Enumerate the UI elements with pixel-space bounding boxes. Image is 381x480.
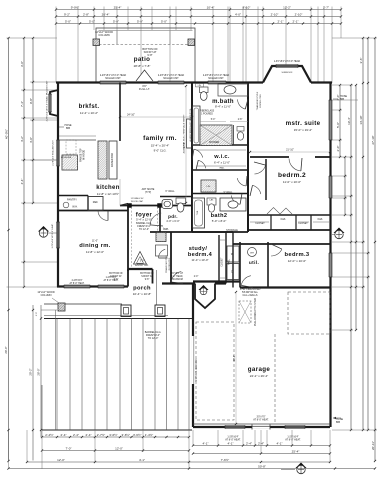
patio soffit dashed line	[99, 44, 192, 46]
mstr bay window	[263, 66, 311, 83]
util-bedrm3 wall	[267, 242, 269, 288]
svg-text:4'-0" x 6'-0": 4'-0" x 6'-0"	[166, 219, 180, 223]
north wall windows brkfst	[100, 80, 126, 82]
svg-text:COLUMN: COLUMN	[98, 33, 109, 37]
svg-text:MULLED UNIT: MULLED UNIT	[163, 78, 179, 80]
svg-text:9'-0" CLG.: 9'-0" CLG.	[154, 149, 167, 153]
brkfst west bay	[50, 90, 58, 116]
svg-text:w.i.c.: w.i.c.	[213, 154, 230, 160]
svg-text:9'-2": 9'-2"	[64, 12, 70, 16]
mstr door arc	[289, 159, 301, 172]
svg-text:mstr. suite: mstr. suite	[286, 120, 321, 127]
svg-text:FULL LT.: FULL LT.	[139, 87, 150, 91]
kitchen island	[98, 141, 107, 179]
svg-text:BIB: BIB	[336, 421, 340, 424]
svg-text:7'-4": 7'-4"	[20, 101, 24, 107]
dining south wall	[57, 285, 128, 287]
garage right dashed storage	[288, 292, 330, 334]
dining south windows	[64, 284, 90, 286]
svg-text:COLUMN: COLUMN	[41, 294, 52, 297]
bottom dim row 4	[9, 468, 376, 470]
garage south window left	[225, 424, 245, 426]
svg-text:14'-10": 14'-10"	[359, 115, 363, 124]
garage south door	[252, 426, 270, 429]
patio dim verticals	[116, 31, 118, 44]
svg-text:brkfst.: brkfst.	[79, 104, 100, 110]
garage dim vert	[235, 292, 237, 424]
keynote right	[334, 228, 345, 234]
svg-text:SUNROOF: SUNROOF	[282, 72, 294, 74]
svg-text:family rm.: family rm.	[143, 135, 177, 142]
svg-text:1-2'8"x5'4": 1-2'8"x5'4"	[106, 277, 117, 279]
wic door arc	[198, 160, 206, 168]
svg-text:TRANSOM STYLE: TRANSOM STYLE	[256, 91, 259, 110]
svg-text:40'-0½": 40'-0½"	[4, 129, 8, 139]
svg-text:4'-1": 4'-1"	[277, 441, 283, 445]
svg-text:9'-8": 9'-8"	[29, 98, 33, 104]
svg-text:9'-8": 9'-8"	[147, 53, 152, 57]
east wall window bedrm3	[328, 253, 330, 277]
dining west window	[55, 222, 57, 248]
closet rods	[250, 221, 269, 223]
right dimension col 2c	[367, 38, 369, 430]
pdr sink	[162, 200, 173, 209]
svg-text:porch: porch	[133, 286, 151, 292]
entry wall	[128, 268, 153, 270]
svg-text:29'-2": 29'-2"	[29, 368, 33, 375]
mbath shower	[200, 125, 232, 146]
kitchen-dining wall	[57, 210, 128, 212]
svg-text:CLG.+WALLS: CLG.+WALLS	[243, 294, 258, 297]
svg-text:11'-0" x 10'-0": 11'-0" x 10'-0"	[283, 180, 301, 184]
svg-text:AT 8'-0" HEAT.: AT 8'-0" HEAT.	[70, 282, 85, 285]
svg-text:PULL DOWN ATTIC STAIR: PULL DOWN ATTIC STAIR	[254, 298, 257, 326]
svg-text:CLOSET: CLOSET	[222, 257, 224, 267]
svg-text:20'-4": 20'-4"	[183, 142, 186, 148]
svg-text:9" WALL: 9" WALL	[224, 191, 234, 194]
porch slab edge	[44, 303, 122, 305]
mbath toilet	[200, 87, 209, 93]
util wh circle	[248, 248, 257, 257]
bottom extension lines	[41, 430, 43, 469]
svg-text:9'-0" O.H. GAR. DR.: 9'-0" O.H. GAR. DR.	[195, 358, 198, 381]
svg-text:RANGE TOP: RANGE TOP	[80, 148, 83, 162]
bath2 vanity	[220, 198, 246, 211]
bedrm2 west wall	[265, 159, 267, 200]
bath2 south wall	[192, 231, 248, 233]
patio door triangle	[136, 70, 153, 81]
kitchen floor line	[119, 179, 121, 206]
svg-text:2'-0": 2'-0"	[336, 146, 340, 152]
svg-text:2'-1": 2'-1"	[293, 19, 299, 23]
svg-text:K&S: K&S	[318, 218, 323, 221]
north wall windows family	[158, 80, 184, 82]
patio post right	[188, 39, 195, 46]
garage north wall east	[240, 286, 331, 288]
north wall brkfst-family	[56, 81, 192, 83]
svg-text:2'-7½": 2'-7½"	[97, 433, 105, 437]
bottom dim row 2b	[193, 453, 330, 455]
svg-text:27'-10": 27'-10"	[371, 135, 375, 144]
util dryer	[227, 264, 239, 280]
svg-text:10'-4" x 10'-8": 10'-4" x 10'-8"	[133, 292, 151, 296]
garage west wall	[192, 284, 194, 428]
svg-text:2-2'8"x5'4" AT 8'-0" HEAD: 2-2'8"x5'4" AT 8'-0" HEAD	[158, 74, 185, 77]
svg-text:2'-4½": 2'-4½"	[45, 433, 53, 437]
svg-text:2-2'8"x5'4" AT 8'-0" HEAD: 2-2'8"x5'4" AT 8'-0" HEAD	[100, 74, 127, 77]
closet row south wall	[248, 229, 331, 231]
top dimension row 1	[56, 9, 341, 11]
right extension lines	[332, 37, 377, 39]
svg-text:2'-10": 2'-10"	[295, 12, 303, 16]
bath2 tub	[193, 198, 205, 228]
svg-text:9'-8": 9'-8"	[145, 279, 150, 281]
mbath south wall	[192, 144, 248, 146]
svg-text:3'-6½": 3'-6½"	[122, 433, 130, 437]
top extension lines	[55, 7, 57, 83]
porch column right	[155, 305, 165, 317]
svg-text:26'-4": 26'-4"	[233, 355, 236, 361]
svg-text:11'-4" x 10'-2": 11'-4" x 10'-2"	[80, 111, 98, 115]
mbath wc	[233, 125, 235, 145]
svg-text:REF.: REF.	[93, 201, 99, 204]
bottom dim row 2	[42, 450, 189, 452]
closet rod study	[220, 239, 225, 241]
pdr north wall	[160, 196, 192, 198]
study west wall	[170, 232, 172, 284]
north wall mbath windows	[208, 80, 226, 82]
svg-text:AT 8'-0" HEAT.: AT 8'-0" HEAT.	[253, 419, 269, 422]
mbath tub	[193, 106, 201, 145]
east wall window mstr	[328, 100, 330, 140]
svg-text:5'-0" x 8'-0": 5'-0" x 8'-0"	[212, 219, 227, 223]
bedrm2 window arc	[253, 185, 261, 194]
patio post left	[93, 39, 100, 46]
svg-text:bedrm.2: bedrm.2	[278, 172, 306, 179]
bar hatch	[156, 233, 166, 242]
svg-text:1-3'0"x5'4" AT 8'-0" HEAD: 1-3'0"x5'4" AT 8'-0" HEAD	[274, 60, 301, 63]
mbath vanity	[218, 84, 248, 96]
svg-text:12'-0" x 10'-0": 12'-0" x 10'-0"	[288, 259, 306, 263]
svg-text:PANTRY: PANTRY	[67, 199, 77, 202]
svg-text:dining rm.: dining rm.	[79, 243, 111, 249]
svg-text:4'-0": 4'-0"	[235, 12, 241, 16]
svg-text:CLOSET: CLOSET	[298, 222, 308, 225]
pdr toilet	[176, 198, 186, 204]
svg-text:2'-4": 2'-4"	[246, 441, 252, 445]
svg-text:AT 8'-0" HEAT.: AT 8'-0" HEAT.	[285, 439, 301, 442]
driveway slab outline	[41, 385, 43, 430]
patio deck outline	[96, 28, 195, 82]
util door arc	[241, 276, 251, 286]
svg-text:WOOD CAP: WOOD CAP	[131, 200, 144, 203]
svg-text:pdr.: pdr.	[168, 214, 178, 219]
mstr south wall	[250, 156, 289, 158]
svg-text:2'-8": 2'-8"	[238, 119, 243, 121]
hall door arc	[237, 178, 246, 186]
wic rail2	[196, 149, 246, 151]
closet dividers	[270, 215, 272, 230]
foyer east wall	[159, 206, 161, 233]
study bay pentagon	[195, 284, 215, 309]
bedrm2 door arc	[254, 165, 265, 174]
foyer opening column right	[158, 204, 162, 208]
kitchen counter top	[59, 139, 96, 141]
svg-text:2'-4": 2'-4"	[86, 433, 92, 437]
svg-text:3'-0": 3'-0"	[20, 61, 24, 67]
svg-text:2'-1": 2'-1"	[278, 19, 284, 23]
mstr dim line	[250, 151, 330, 153]
svg-text:TO 12'-0": TO 12'-0"	[148, 337, 159, 340]
kitchen-family wall	[119, 83, 121, 142]
family east wall	[191, 83, 193, 233]
svg-text:3'-6½": 3'-6½"	[133, 433, 141, 437]
svg-text:HALL: HALL	[228, 258, 231, 264]
svg-text:1'-0": 1'-0"	[36, 312, 38, 317]
bottom dim row 1b	[193, 445, 330, 447]
svg-text:3'-0": 3'-0"	[140, 261, 145, 263]
svg-text:26'-4": 26'-4"	[102, 12, 110, 16]
svg-text:4'-1": 4'-1"	[139, 458, 145, 462]
foyer opening column left	[128, 204, 132, 208]
left dimension col mid	[23, 38, 25, 287]
bedrm2 south closet wall	[248, 214, 331, 216]
hall-bath2 wall	[192, 193, 248, 195]
svg-text:6" WALL: 6" WALL	[165, 190, 175, 193]
svg-text:bedrm.3: bedrm.3	[284, 252, 309, 258]
bottom dim row 1	[42, 436, 189, 438]
right dimension col 1	[350, 85, 352, 430]
svg-text:4'-0": 4'-0"	[29, 137, 33, 143]
svg-text:3'-6": 3'-6"	[359, 58, 363, 64]
study closet strip	[218, 235, 220, 284]
svg-text:TUB: TUB	[197, 210, 199, 215]
bath2 door arc	[231, 195, 240, 204]
svg-text:4'-1": 4'-1"	[203, 441, 209, 445]
attic stair dashed	[239, 301, 251, 323]
svg-text:MULLED UNIT: MULLED UNIT	[105, 78, 121, 80]
svg-text:50'-8": 50'-8"	[258, 464, 266, 468]
svg-text:11'-0": 11'-0"	[92, 240, 98, 243]
entry door triangles	[134, 252, 147, 265]
svg-text:1'-4½": 1'-4½"	[145, 433, 153, 437]
svg-text:util.: util.	[249, 260, 259, 266]
kitchen-dining door arc	[98, 211, 108, 221]
svg-text:RAISED BAR: RAISED BAR	[111, 153, 114, 167]
svg-text:29'-0": 29'-0"	[4, 346, 8, 353]
svg-text:28'-0": 28'-0"	[37, 368, 41, 375]
right dimension col 2	[362, 38, 364, 430]
svg-text:ENTRY DR.: ENTRY DR.	[135, 264, 149, 267]
mbath door arc2	[238, 99, 246, 109]
top dimension row 3	[56, 23, 341, 25]
right dimension col 1c	[344, 157, 346, 215]
svg-text:TRANSOM: TRANSOM	[171, 278, 183, 281]
svg-text:11'-4" x 10'-0": 11'-4" x 10'-0"	[192, 258, 209, 262]
left dimension col inner	[32, 38, 34, 203]
svg-text:HOSE BIB: HOSE BIB	[61, 157, 72, 159]
pantry	[58, 195, 88, 197]
svg-text:BOTTOM OF: BOTTOM OF	[109, 273, 123, 275]
fridge	[88, 197, 103, 211]
svg-text:patio: patio	[134, 56, 151, 63]
svg-text:LAV.: LAV.	[209, 199, 213, 202]
bath2 toilet	[207, 198, 216, 205]
svg-text:MULLED UNIT: MULLED UNIT	[208, 78, 224, 80]
svg-text:5'-0": 5'-0"	[137, 19, 143, 23]
wic south wall	[192, 169, 248, 171]
svg-text:SHOWER: SHOWER	[209, 142, 220, 144]
svg-text:2'-4": 2'-4"	[61, 433, 67, 437]
svg-text:BIB: BIB	[340, 98, 344, 101]
svg-text:20'-11": 20'-11"	[371, 441, 375, 450]
svg-text:21'-10": 21'-10"	[286, 149, 294, 152]
driveway joint lines	[56, 319, 58, 431]
svg-text:RAIL: RAIL	[220, 167, 226, 170]
svg-text:28'-8" x 7'-8": 28'-8" x 7'-8"	[134, 64, 151, 68]
left dimension col outer	[8, 38, 10, 461]
svg-text:1 POURED: 1 POURED	[201, 114, 213, 116]
svg-text:2-2'8"x5'4" MULLED UNIT: 2-2'8"x5'4" MULLED UNIT	[53, 140, 55, 166]
svg-text:12'-0": 12'-0"	[57, 458, 65, 462]
svg-text:2'-0": 2'-0"	[194, 276, 199, 278]
range counter	[62, 155, 78, 170]
svg-text:6'-4" x 11'-0": 6'-4" x 11'-0"	[214, 161, 230, 165]
bedrm2 closet bifold	[267, 208, 292, 215]
svg-text:7'-0": 7'-0"	[66, 446, 72, 450]
north wall mbath	[192, 81, 263, 83]
right dimension col 1b	[339, 85, 341, 157]
left extension lines	[7, 37, 58, 39]
svg-text:2'-10": 2'-10"	[271, 12, 279, 16]
svg-text:AT 8'-0" HEAT.: AT 8'-0" HEAT.	[104, 279, 119, 282]
svg-text:5'-0": 5'-0"	[161, 19, 167, 23]
util west wall	[239, 242, 241, 288]
svg-text:TO 12'-0": TO 12'-0"	[139, 228, 149, 231]
svg-text:12'-0": 12'-0"	[115, 446, 123, 450]
svg-text:5'-0": 5'-0"	[336, 122, 340, 128]
family dim line	[120, 116, 192, 118]
right dimension col 2b	[355, 85, 357, 330]
svg-text:kitchen: kitchen	[96, 185, 119, 191]
svg-text:BOTTOM OF: BOTTOM OF	[140, 273, 154, 275]
svg-text:ALLEN FIBERGLASS WHIRLPOOL: ALLEN FIBERGLASS WHIRLPOOL	[189, 108, 192, 142]
svg-text:2'-4": 2'-4"	[73, 433, 79, 437]
garage center dashed line	[274, 334, 276, 424]
svg-text:4'-4": 4'-4"	[20, 179, 24, 185]
svg-text:12'-2": 12'-2"	[283, 5, 291, 9]
svg-text:5'-0": 5'-0"	[65, 19, 71, 23]
svg-text:15'-4" x 20'-4": 15'-4" x 20'-4"	[151, 144, 169, 148]
bedrm3 door arc	[271, 249, 282, 256]
svg-text:2-2'8"x5'4" AT 8'-0" HEAD, MUL: 2-2'8"x5'4" AT 8'-0" HEAD, MULLED UNIT	[46, 80, 49, 121]
svg-text:STORAGE: STORAGE	[226, 229, 238, 232]
porch column left	[121, 305, 131, 317]
north wall mstr east	[311, 81, 332, 83]
svg-text:CLOSET: CLOSET	[255, 222, 265, 225]
garage north wall west	[193, 280, 240, 282]
svg-text:TRANSOM STYLE: TRANSOM STYLE	[165, 255, 168, 273]
svg-text:15'-0" x 19'-2": 15'-0" x 19'-2"	[294, 128, 312, 132]
svg-text:3'-6½": 3'-6½"	[109, 433, 117, 437]
svg-text:25'-4": 25'-4"	[292, 449, 300, 453]
mbath door arc	[194, 149, 203, 157]
svg-text:FIBERGLASS: FIBERGLASS	[200, 110, 215, 113]
svg-text:4'-1": 4'-1"	[228, 441, 234, 445]
svg-text:K&S: K&S	[281, 218, 286, 221]
svg-text:8'-4" x 11'-0": 8'-4" x 11'-0"	[215, 105, 231, 109]
west wall upper	[57, 83, 59, 288]
svg-text:(TYP): (TYP)	[145, 191, 151, 194]
svg-text:D: D	[231, 271, 233, 274]
family dim vert	[185, 86, 187, 203]
family south wall	[120, 205, 192, 207]
svg-text:7'-6½": 7'-6½"	[221, 458, 229, 462]
svg-text:BIB: BIB	[66, 127, 70, 130]
garage west door gap	[192, 336, 195, 384]
svg-text:8'-10": 8'-10"	[243, 5, 251, 9]
foyer west wall	[127, 206, 129, 272]
bottom left dim verticals	[32, 305, 34, 461]
study door arc	[171, 272, 181, 282]
wing divider wall	[247, 83, 249, 233]
foyer dashed ceiling lines	[131, 207, 133, 268]
svg-text:W/ HOOD: W/ HOOD	[84, 149, 86, 160]
bottom dim row 3	[27, 461, 330, 463]
mbath lin box	[196, 84, 204, 87]
fireplace	[187, 119, 193, 148]
svg-text:19'-4": 19'-4"	[347, 117, 351, 125]
svg-text:3'0"x5'4" AT: 3'0"x5'4" AT	[171, 272, 184, 275]
east wall	[329, 83, 331, 428]
svg-text:5'-0": 5'-0"	[211, 119, 216, 121]
svg-text:5'-4" x 12'-0": 5'-4" x 12'-0"	[136, 218, 152, 222]
svg-text:24'-10": 24'-10"	[127, 113, 135, 117]
svg-text:2'-8": 2'-8"	[83, 12, 89, 16]
svg-text:LIN.: LIN.	[206, 186, 210, 188]
garage left dashed bay	[196, 322, 234, 420]
top dimension row 2	[56, 16, 341, 18]
svg-text:2-2'8"x5'4": 2-2'8"x5'4"	[72, 280, 83, 282]
study south wall	[162, 282, 195, 284]
svg-text:bar.: bar.	[163, 227, 169, 231]
svg-text:24'-2" x 26'-4": 24'-2" x 26'-4"	[250, 374, 268, 378]
svg-text:LIN.: LIN.	[198, 85, 202, 87]
garage south window right	[285, 424, 305, 426]
svg-text:SOFFIT AT: SOFFIT AT	[141, 275, 153, 278]
corridor wall study north	[150, 231, 233, 233]
range hood dashed	[66, 140, 76, 154]
svg-text:1-2'8"x5'4" AT 8'-0" HEAT.: 1-2'8"x5'4" AT 8'-0" HEAT.	[51, 223, 54, 248]
keynote bottom	[296, 463, 307, 469]
keynote left	[38, 226, 49, 232]
porch corner column	[58, 303, 65, 311]
svg-text:DOOR LITES: DOOR LITES	[260, 94, 262, 108]
garage south wall	[193, 426, 330, 428]
svg-text:4'-2": 4'-2"	[20, 136, 24, 142]
right dimension col 3	[374, 38, 376, 461]
bedrm3 north wall	[233, 243, 331, 245]
wic rail	[196, 165, 246, 167]
util washer	[227, 246, 239, 262]
east wall window bedrm2	[328, 176, 330, 198]
pdr door arc	[150, 213, 161, 225]
svg-text:WH: WH	[250, 253, 254, 255]
west wall windows kitchen	[55, 140, 57, 166]
svg-text:5'-0": 5'-0"	[113, 19, 119, 23]
svg-text:11'-8" x 12'-10½": 11'-8" x 12'-10½"	[97, 192, 119, 196]
svg-text:W.H.: W.H.	[72, 206, 78, 209]
